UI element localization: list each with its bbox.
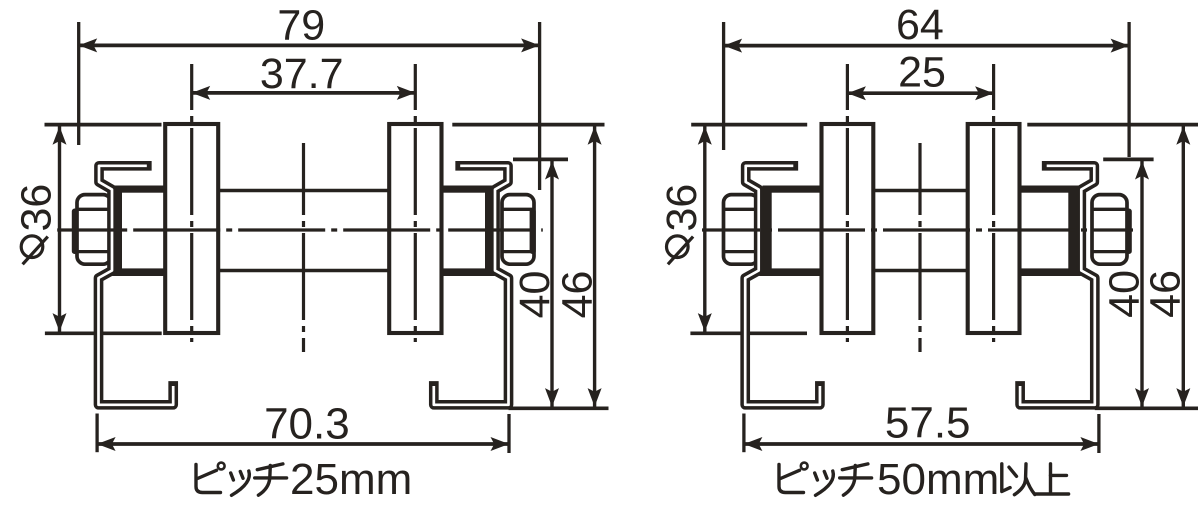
right figure: wheel W1 center line / 25 extension bbox=[846, 64, 849, 342]
left figure: right wheel W2 bbox=[389, 124, 441, 333]
caption left: katakana CHI bbox=[255, 464, 287, 495]
svg-text:57.5: 57.5 bbox=[885, 399, 971, 448]
left figure: left hub boss bbox=[113, 186, 168, 193]
left figure: dim 70.3 line bbox=[97, 442, 509, 446]
right figure: horizontal axis center line bbox=[702, 228, 1133, 231]
right figure: dim 40 top arrow bbox=[1135, 161, 1149, 180]
right figure: assembly vertical center line bbox=[918, 143, 921, 352]
left figure: shaft top line bbox=[215, 189, 392, 193]
left figure: wheel W2 center line / 37.7 extension bbox=[414, 64, 417, 342]
right figure: top-right reference line (46 datum) bbox=[1027, 123, 1198, 127]
right figure: dim phi36 top arrow bbox=[698, 126, 712, 145]
left figure: dim 46 line bbox=[593, 125, 596, 409]
right figure: left wheel W1 bbox=[822, 124, 874, 333]
caption left: katakana small TSU bbox=[231, 471, 250, 495]
left figure: horizontal axis center line bbox=[57, 228, 543, 231]
right figure: right bolt tip bbox=[1126, 209, 1132, 255]
left figure: left bolt tip bbox=[72, 209, 78, 255]
left figure: dim phi36 bottom arrow bbox=[53, 313, 67, 332]
svg-text:50mm: 50mm bbox=[877, 455, 999, 504]
right figure: dim phi36 bottom arrow bbox=[698, 313, 712, 332]
left figure: dim text phi36 bbox=[13, 184, 61, 265]
svg-text:25mm: 25mm bbox=[290, 455, 412, 504]
caption right: katakana PI bbox=[779, 465, 804, 493]
right figure: dim 46 top arrow bbox=[1176, 126, 1190, 145]
right figure: left hex bolt head bbox=[724, 195, 759, 265]
caption right: kanji JOU (of ijou = or more) bbox=[1036, 464, 1069, 494]
left figure: dim 46 bottom arrow bbox=[588, 388, 602, 407]
svg-text:37.7: 37.7 bbox=[260, 50, 344, 98]
left figure: right side C-channel rail bbox=[434, 166, 509, 405]
left figure: dim phi36 top arrow bbox=[53, 126, 67, 145]
caption left: katakana PI bbox=[196, 465, 221, 493]
left figure: right bolt tip bbox=[530, 209, 536, 255]
right figure: dim 57.5 right arrow bbox=[1080, 437, 1099, 451]
left figure: dim 70.3 left extension line bbox=[95, 414, 98, 453]
right figure: right bolt washer plate bbox=[1068, 187, 1081, 276]
svg-text:46: 46 bbox=[1142, 270, 1190, 318]
svg-text:40: 40 bbox=[511, 271, 559, 319]
left figure: dim 70.3 right extension line bbox=[507, 414, 510, 453]
left figure: left hex bolt head bbox=[77, 195, 111, 265]
right figure: dim 57.5 left extension line bbox=[742, 414, 745, 453]
right figure: shaft bottom line bbox=[870, 269, 971, 273]
left figure: wheel W1 center line / 37.7 extension bbox=[190, 64, 193, 342]
right figure: right wheel W2 bbox=[968, 124, 1020, 333]
left figure: dim 79 left arrow bbox=[79, 38, 98, 52]
right figure: dim 64 left extension line bbox=[722, 22, 725, 150]
svg-text:36: 36 bbox=[13, 184, 61, 232]
left figure: bottom-right reference line (40/46 datum) bbox=[509, 406, 609, 410]
left figure: dim 37.7 right arrow bbox=[397, 86, 416, 100]
left figure: assembly vertical center line bbox=[302, 143, 305, 352]
left figure: right bolt washer plate bbox=[485, 187, 495, 276]
left figure: dim 40 line bbox=[550, 159, 553, 408]
right figure: dim text phi36 bbox=[658, 184, 706, 265]
caption right: kanji I (of ijou = or more) bbox=[1002, 464, 1035, 495]
right figure: dim 57.5 left arrow bbox=[744, 437, 763, 451]
right figure: dim 46 line bbox=[1182, 125, 1185, 409]
left figure: dim 40 top arrow bbox=[545, 161, 559, 180]
left figure: dim 37.7 line bbox=[192, 91, 416, 95]
right figure: 40 top reference line bbox=[1103, 158, 1153, 162]
left figure: bottom reference line (phi36 datum) bbox=[45, 331, 162, 335]
right figure: dim 40 line bbox=[1140, 159, 1143, 408]
right figure: dim 46 bottom arrow bbox=[1176, 388, 1190, 407]
right figure: dim 64 left arrow bbox=[724, 39, 743, 53]
right figure: right side C-channel rail bbox=[1020, 166, 1095, 405]
svg-text:70.3: 70.3 bbox=[264, 400, 350, 449]
left figure: right hex bolt head bbox=[502, 195, 534, 265]
left figure: left side C-channel rail bbox=[99, 166, 174, 405]
left figure: dim 79 line bbox=[79, 44, 540, 48]
right figure: right hub boss bbox=[1018, 186, 1079, 193]
right figure: dim 64 right arrow bbox=[1111, 39, 1130, 53]
left figure: 40 top reference line bbox=[513, 158, 568, 162]
right figure: dim 25 line bbox=[847, 91, 993, 95]
right figure: bottom reference line (phi36 datum) bbox=[690, 331, 807, 335]
right figure: shaft top line bbox=[870, 189, 971, 193]
right figure: dim 25 left arrow bbox=[847, 86, 866, 100]
right figure: bottom-right reference line (40/46 datum) bbox=[1095, 406, 1198, 410]
left figure: dim 79 left extension line bbox=[77, 22, 80, 145]
svg-text:36: 36 bbox=[658, 184, 706, 232]
left figure: left wheel W1 bbox=[165, 124, 218, 333]
svg-text:64: 64 bbox=[896, 1, 944, 49]
left figure: right hub boss bbox=[440, 186, 495, 193]
svg-text:79: 79 bbox=[277, 1, 325, 49]
caption right: katakana small TSU bbox=[815, 471, 834, 495]
right figure: left bolt washer plate bbox=[759, 187, 772, 276]
left figure: dim 79 right arrow bbox=[521, 38, 540, 52]
right figure: wheel W2 center line / 25 extension bbox=[992, 64, 995, 342]
left figure: dim phi36 line bbox=[58, 125, 61, 334]
left figure: dim 70.3 right arrow bbox=[491, 437, 510, 451]
left figure: dim 70.3 left arrow bbox=[97, 437, 116, 451]
right figure: top-left reference line bbox=[691, 123, 807, 127]
right figure: dim 57.5 right extension line bbox=[1097, 414, 1100, 453]
svg-text:25: 25 bbox=[898, 49, 946, 97]
left figure: top-left reference line (wheel top / 46 datum) bbox=[45, 123, 162, 127]
right figure: right hex bolt head bbox=[1092, 195, 1127, 265]
right figure: dim 25 right arrow bbox=[975, 86, 994, 100]
left figure: dim 46 top arrow bbox=[588, 126, 602, 145]
left figure: dim 79 right extension line bbox=[538, 22, 541, 190]
left figure: dim 40 bottom arrow bbox=[545, 388, 559, 407]
right figure: dim 64 right extension line bbox=[1127, 22, 1130, 157]
left figure: dim 37.7 left arrow bbox=[192, 86, 211, 100]
right figure: dim 40 bottom arrow bbox=[1135, 388, 1149, 407]
right figure: left hub boss bbox=[763, 186, 824, 193]
right figure: dim 57.5 line bbox=[744, 442, 1099, 446]
left figure: top-right reference line (46 datum) bbox=[452, 123, 604, 127]
right figure: left side C-channel rail bbox=[745, 166, 820, 405]
right figure: dim phi36 line bbox=[703, 125, 706, 334]
left figure: left bolt washer plate bbox=[112, 187, 122, 276]
left figure: shaft bottom line bbox=[215, 269, 392, 273]
right figure: dim 64 line bbox=[724, 44, 1130, 48]
svg-text:46: 46 bbox=[554, 271, 602, 319]
caption right: katakana CHI bbox=[840, 464, 872, 495]
